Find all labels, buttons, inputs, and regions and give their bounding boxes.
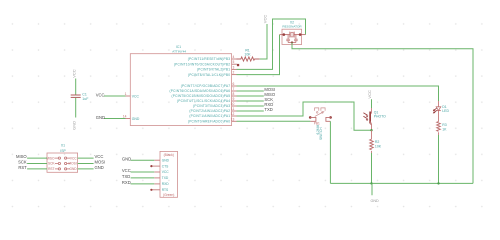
IC1 pin 6 PA7 (181, 82, 237, 88)
svg-text:TXD: TXD (122, 174, 130, 179)
svg-text:X1: X1 (61, 143, 65, 147)
switch S1 pushbutton (309, 108, 332, 140)
wire pin 7 MOSI stub (237, 90, 264, 92)
wire GND net to pin 14 (104, 118, 126, 120)
svg-text:MISO: MISO (16, 154, 27, 159)
svg-text:2: 2 (232, 71, 234, 75)
svg-text:6: 6 (232, 82, 234, 86)
wire J1 to VCC label (78, 157, 94, 159)
J1 pin RST (48, 167, 60, 171)
IC1 pin 10 PA3 (193, 102, 236, 108)
IC1 pin 11 PA2 (189, 107, 236, 113)
phototransistor Q1 (363, 108, 386, 130)
svg-text:(PCINT10/INT0/OC0A/CKOUT)PB2: (PCINT10/INT0/OC0A/CKOUT)PB2 (174, 62, 230, 66)
wire GND symbol stub (371, 183, 373, 195)
svg-text:9: 9 (232, 97, 234, 101)
svg-text:RST: RST (48, 167, 54, 171)
svg-text:VCC: VCC (71, 69, 76, 78)
wire GND to J2 (131, 159, 155, 161)
ISP header J1 body (47, 153, 78, 172)
wire VCC to J2 (131, 171, 155, 173)
svg-text:(PCINT1/AIN0/ADC1)PA1: (PCINT1/AIN0/ADC1)PA1 (189, 114, 230, 118)
svg-text:(PCINT5/OC1B/MISO/DO/ADC5)PA5: (PCINT5/OC1B/MISO/DO/ADC5)PA5 (171, 94, 230, 98)
svg-text:MISO: MISO (46, 156, 55, 160)
svg-text:1: 1 (125, 92, 127, 96)
svg-text:GND: GND (162, 158, 170, 162)
svg-text:(PCINT3/T0/ADC3)PA3: (PCINT3/T0/ADC3)PA3 (193, 104, 230, 108)
J2 pin RXD (154, 182, 169, 186)
svg-text:(PCINT0/AREF/ADC0)PA0: (PCINT0/AREF/ADC0)PA0 (188, 120, 230, 124)
svg-text:VCC: VCC (262, 15, 267, 24)
junction R2 branch on GND rail (370, 182, 372, 184)
IC1 pin 5 PB2 (174, 60, 237, 66)
wire SCK to J1 (27, 163, 47, 165)
svg-text:PHOTO: PHOTO (374, 115, 386, 119)
svg-text:VCC: VCC (162, 170, 170, 174)
wire VCC to C1 top (75, 79, 77, 95)
svg-text:TXD: TXD (264, 107, 272, 112)
wire R2 to GND rail (371, 153, 373, 183)
wire J1 to MOSI label (78, 163, 94, 165)
wire pin 3 XTAL2 to resonator right pin (237, 19, 306, 69)
resistor R1 10k (reset pull-up) (237, 49, 260, 62)
svg-text:GND: GND (71, 121, 76, 130)
IC1 pin 2 PB0 (188, 71, 237, 77)
wire VCC to phototransistor collector (371, 99, 373, 108)
svg-text:(PCINT7/ICP/OC0B/ADC7)PA7: (PCINT7/ICP/OC0B/ADC7)PA7 (181, 84, 230, 88)
wire RXD to J2 (131, 183, 155, 185)
J2 pin GND (154, 158, 169, 162)
IC1 pin 7 PA6 (170, 87, 237, 93)
IC1 pin 1 VCC (125, 92, 140, 99)
svg-text:SWITCH: SWITCH (319, 127, 323, 140)
IC1 pin 9 PA4 (177, 97, 236, 103)
GND rail wire (bottom) (330, 182, 473, 184)
svg-text:8: 8 (232, 92, 234, 96)
junction R3 branch on GND rail (437, 182, 439, 184)
ground symbol GND (370, 199, 379, 203)
wire pin 6 to LED branch (237, 86, 439, 101)
svg-text:(PCINT6/OC1A/SDA/MOSI/ADC6)PA6: (PCINT6/OC1A/SDA/MOSI/ADC6)PA6 (170, 89, 231, 93)
IC1 pin 13 PA0 (188, 117, 237, 123)
svg-text:(PCINT4/T1/SCL/SCK/ADC4)PA4: (PCINT4/T1/SCL/SCK/ADC4)PA4 (177, 99, 230, 103)
svg-text:VCC: VCC (95, 154, 104, 159)
svg-text:GND: GND (370, 199, 379, 203)
wire resonator center pin to GND rail (around right side) (292, 43, 473, 184)
svg-text:(Green): (Green) (163, 193, 174, 197)
svg-text:(PCINT9/XTAL2)PB1: (PCINT9/XTAL2)PB1 (197, 68, 230, 72)
svg-text:RXD: RXD (122, 180, 131, 185)
svg-text:(PCINT11/RESET/dW)PB3: (PCINT11/RESET/dW)PB3 (188, 57, 230, 61)
svg-text:GND: GND (122, 156, 131, 161)
IC1 pin 12 PA1 (189, 112, 236, 118)
J1 pin MOSI (65, 162, 77, 166)
wire pin 11 TXD stub (237, 110, 264, 112)
wire pin 10 RXD stub (237, 105, 264, 107)
svg-text:5: 5 (232, 60, 234, 64)
svg-text:VCC: VCC (132, 94, 140, 98)
svg-text:(PCINT2/AIN1/ADC2)PA2: (PCINT2/AIN1/ADC2)PA2 (189, 109, 230, 113)
J1 pin GND (65, 167, 78, 171)
IC IC1 ATtiny44 body (130, 54, 231, 126)
svg-text:10: 10 (231, 102, 235, 106)
svg-text:VCC: VCC (122, 168, 131, 173)
svg-text:14: 14 (123, 114, 127, 118)
wire J1 to GND label (78, 168, 94, 170)
svg-text:LED: LED (442, 109, 449, 113)
svg-text:VCC: VCC (367, 90, 372, 99)
svg-text:10K: 10K (244, 53, 251, 57)
J2 pin TXD (154, 176, 169, 180)
wire R1 to VCC (260, 24, 267, 59)
IC1 pin 4 PB3 (188, 55, 237, 61)
svg-text:(PCINT8/XTAL1/CLKI)PB0: (PCINT8/XTAL1/CLKI)PB0 (188, 73, 230, 77)
J2 pin VCC (154, 170, 169, 174)
svg-text:GND: GND (70, 167, 78, 171)
svg-text:4: 4 (232, 55, 234, 59)
wire pin 9 SCK stub (237, 100, 264, 102)
wire TXD to J2 (131, 177, 155, 179)
svg-text:13: 13 (231, 117, 235, 121)
IC1 pin 3 PB1 (197, 65, 237, 71)
svg-text:RST: RST (18, 165, 27, 170)
J1 pin MISO (46, 156, 60, 160)
svg-text:10K: 10K (375, 144, 382, 148)
J1 pin VCC (65, 156, 78, 160)
IC1 pin 8 PA5 (171, 92, 236, 98)
svg-text:11: 11 (231, 107, 235, 111)
capacitor C1 (71, 93, 89, 101)
resistor R2 10K (370, 130, 382, 153)
svg-text:TXD: TXD (162, 176, 169, 180)
J2 pin RTS (n/c) (150, 188, 169, 192)
J1 pin SCK (48, 162, 61, 166)
svg-text:SCK: SCK (48, 162, 55, 166)
svg-text:RXD: RXD (162, 182, 170, 186)
svg-text:MOSI: MOSI (68, 162, 76, 166)
svg-text:1K: 1K (442, 127, 447, 131)
svg-text:CTS: CTS (162, 164, 169, 168)
svg-text:RTS: RTS (162, 188, 169, 192)
wire pin 8 MISO stub (237, 95, 264, 97)
LED D1 (433, 101, 450, 122)
pin 5 stub terminator square (237, 64, 239, 66)
J2 pin CTS (n/c) (150, 164, 169, 168)
svg-text:1uF: 1uF (82, 97, 88, 101)
svg-text:12: 12 (231, 112, 235, 116)
svg-text:VCC: VCC (70, 156, 77, 160)
wire R3 to GND rail (438, 135, 440, 183)
wire MISO to J1 (27, 157, 47, 159)
svg-text:SCK: SCK (18, 160, 27, 165)
svg-text:MOSI: MOSI (95, 160, 106, 165)
FTDI header J2 body (160, 151, 178, 197)
IC1 pin 14 GND (123, 114, 140, 121)
svg-text:7: 7 (232, 87, 234, 91)
svg-text:RESONATOR: RESONATOR (282, 24, 302, 28)
svg-text:GND: GND (132, 117, 140, 121)
svg-text:ISP: ISP (60, 149, 66, 153)
svg-text:(Black): (Black) (164, 153, 174, 157)
junction phototransistor / R2 / ADC node (370, 129, 372, 131)
resonator X2 (280, 20, 306, 44)
resistor R3 1K (437, 122, 447, 136)
wire RST to J1 (27, 168, 47, 170)
wire VCC net to pin 1 (104, 95, 126, 97)
wire S1 to GND rail (329, 121, 331, 183)
wire pin 12 to phototransistor divider node (237, 102, 372, 130)
svg-text:GND: GND (96, 115, 105, 120)
wire pin 2 XTAL1 to resonator left pin (237, 35, 280, 75)
svg-text:GND: GND (95, 165, 104, 170)
svg-text:ATTINY44: ATTINY44 (172, 49, 186, 53)
svg-text:3: 3 (232, 65, 234, 69)
wire C1 bottom to GND (75, 98, 77, 118)
svg-text:VCC: VCC (96, 92, 105, 97)
wire pin 13 to switch S1 (237, 120, 311, 122)
